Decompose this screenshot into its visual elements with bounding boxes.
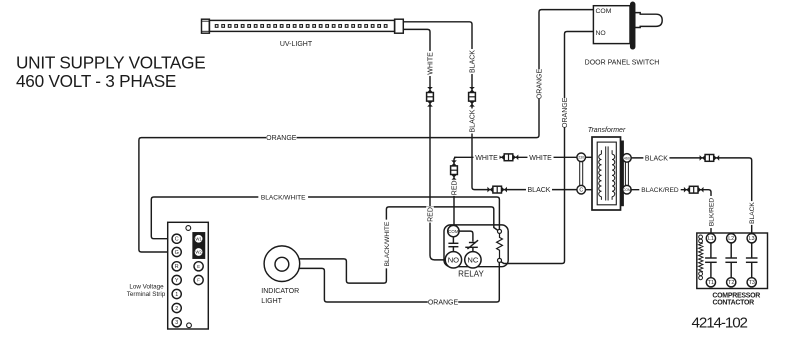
relay NC contact (459, 231, 478, 252)
svg-text:W2: W2 (195, 250, 202, 255)
contactor terminal T2 (727, 278, 736, 287)
svg-text:UNIT SUPPLY VOLTAGE: UNIT SUPPLY VOLTAGE (16, 53, 205, 73)
uv-light lamp (202, 19, 404, 33)
svg-text:BLACK/WHITE: BLACK/WHITE (261, 194, 306, 201)
wire label BLACK left (526, 185, 552, 194)
svg-text:NC: NC (467, 256, 478, 265)
svg-text:ORANGE: ORANGE (266, 135, 297, 142)
wire black: uv-light to transformer C terminal (403, 22, 577, 190)
contactor contact 2 (725, 243, 737, 278)
svg-text:T3: T3 (749, 280, 755, 286)
connector on black wire right (700, 155, 720, 162)
connector on black wire to transformer (487, 186, 507, 193)
wire white: junction to transformer 230 terminal (454, 156, 577, 158)
svg-text:COM: COM (623, 188, 631, 192)
wire black/white: indicator light to relay coil top (299, 207, 498, 283)
svg-text:BLACK: BLACK (749, 202, 756, 224)
transformer terminal leads (580, 157, 629, 189)
connector on black wire (469, 87, 476, 107)
svg-text:WHITE: WHITE (428, 52, 435, 75)
svg-text:RED: RED (452, 180, 459, 195)
terminal C (172, 234, 181, 243)
low voltage terminal strip body (168, 222, 209, 329)
svg-text:BLACK/WHITE: BLACK/WHITE (384, 221, 391, 266)
terminal 3 (172, 318, 181, 327)
svg-text:ORANGE: ORANGE (537, 69, 544, 100)
contactor terminal T3 (747, 278, 756, 287)
contactor terminal L2 (727, 234, 736, 243)
wire label BLACK/RED horiz (639, 185, 680, 194)
svg-text:DOOR PANEL SWITCH: DOOR PANEL SWITCH (585, 59, 660, 66)
svg-text:BLACK: BLACK (470, 109, 477, 132)
wire label WHITE (426, 51, 434, 76)
terminal F (194, 275, 203, 284)
svg-text:RELAY: RELAY (458, 269, 484, 278)
svg-text:COM: COM (596, 8, 612, 15)
transformer terminal 460 (623, 154, 632, 163)
svg-text:UV-LIGHT: UV-LIGHT (280, 41, 313, 48)
svg-text:ORANGE: ORANGE (562, 97, 569, 128)
contactor terminal T1 (706, 278, 715, 287)
svg-text:NO: NO (448, 256, 459, 265)
svg-text:ORANGE: ORANGE (428, 299, 459, 306)
terminal 2 (172, 303, 181, 312)
connector on white wire (427, 87, 434, 107)
wire label BLACK lower (468, 108, 476, 133)
svg-text:C: C (175, 237, 179, 243)
svg-text:BLACK: BLACK (645, 155, 668, 162)
svg-text:460: 460 (624, 156, 630, 160)
wire label RED upper (450, 180, 458, 196)
svg-text:2: 2 (175, 306, 178, 312)
contactor coil spring (699, 235, 703, 280)
connector on white wire to transformer (499, 154, 519, 161)
svg-text:E: E (197, 264, 200, 269)
transformer terminal COM (623, 185, 632, 194)
svg-text:T2: T2 (728, 280, 734, 286)
contactor contact 1 (705, 243, 717, 278)
transformer body (592, 137, 624, 210)
connector on black/red wire (684, 186, 704, 193)
svg-text:4214-102: 4214-102 (692, 314, 748, 331)
relay NC terminal (465, 252, 481, 268)
wire orange: door switch COM to terminal G (139, 10, 594, 252)
transformer terminal C (577, 185, 586, 194)
wire red: junction down to relay COM (454, 157, 457, 225)
terminal E (194, 262, 203, 271)
wire label BLACK (468, 49, 476, 74)
relay COM terminal (448, 225, 459, 236)
connector on red wire (451, 160, 458, 180)
contactor contact 3 (746, 243, 758, 278)
wire label WHITE 2 (527, 153, 553, 162)
svg-text:3: 3 (175, 320, 178, 326)
wire label WHITE 1 (473, 153, 499, 162)
door panel switch (593, 2, 662, 49)
svg-text:COMPRESSOR: COMPRESSOR (712, 292, 760, 299)
wire label ORANGE horizontal (266, 133, 297, 142)
wire black: transformer 460 terminal to contactor L3 (631, 158, 752, 234)
relay coil (497, 229, 503, 262)
svg-text:G: G (175, 250, 179, 256)
relay NO contact (448, 237, 458, 252)
svg-text:BLACK: BLACK (470, 50, 477, 73)
wire black/red: transformer COM terminal to contactor L1 (631, 190, 711, 234)
wire label BLACK right horiz (643, 153, 669, 162)
terminal R (172, 262, 181, 271)
svg-text:L2: L2 (728, 236, 734, 242)
svg-text:Y: Y (175, 278, 179, 284)
contactor terminal L3 (747, 234, 756, 243)
svg-text:T1: T1 (708, 280, 714, 286)
svg-text:BLK/RED: BLK/RED (708, 198, 715, 226)
contactor terminal L1 (706, 234, 715, 243)
terminal W2 (194, 247, 203, 256)
terminal Y (172, 275, 181, 284)
svg-text:Transformer: Transformer (588, 127, 626, 134)
terminal W1 (194, 234, 203, 243)
svg-text:F: F (197, 278, 200, 283)
svg-text:W1: W1 (195, 236, 202, 241)
svg-text:L1: L1 (708, 236, 714, 242)
svg-text:1: 1 (175, 292, 178, 298)
terminal G (172, 247, 181, 256)
svg-text:RED: RED (428, 207, 435, 222)
relay body (444, 225, 508, 267)
wire label ORANGE com (535, 69, 543, 100)
svg-text:BLACK: BLACK (528, 187, 551, 194)
svg-text:WHITE: WHITE (529, 155, 552, 162)
svg-text:Low Voltage: Low Voltage (129, 283, 164, 290)
indicator light (264, 246, 300, 282)
wire black/white: terminal C to relay coil top (151, 197, 499, 239)
compressor contactor body (697, 233, 768, 289)
terminal 1 (172, 289, 181, 298)
svg-text:C: C (579, 188, 583, 194)
wire white/red: uv-light to relay NO (403, 29, 445, 260)
svg-text:NO: NO (596, 30, 606, 37)
wire label ORANGE bottom (428, 297, 459, 306)
svg-text:COM: COM (448, 229, 459, 234)
wire label ORANGE no (561, 97, 569, 128)
svg-text:LIGHT: LIGHT (261, 298, 282, 305)
wire label BLACK right (748, 201, 756, 225)
wire label BLK/RED (707, 196, 715, 228)
relay NO terminal (445, 252, 461, 268)
svg-text:L3: L3 (749, 236, 755, 242)
wire orange: indicator light to relay coil bottom (299, 263, 499, 302)
wire label BLACK/WHITE vertical (383, 220, 391, 269)
svg-text:CONTACTOR: CONTACTOR (713, 300, 755, 307)
svg-text:BLACK/RED: BLACK/RED (641, 187, 679, 194)
svg-text:Terminal Strip: Terminal Strip (127, 291, 166, 298)
wire label RED lower (426, 206, 434, 222)
svg-text:R: R (175, 264, 179, 270)
svg-text:INDICATOR: INDICATOR (261, 288, 299, 295)
wire orange: door switch NO to relay coil bottom (501, 32, 594, 264)
wire label BLACK/WHITE horizontal (258, 192, 308, 201)
svg-text:WHITE: WHITE (475, 155, 498, 162)
transformer terminal 230 (577, 153, 586, 162)
svg-text:460 VOLT - 3 PHASE: 460 VOLT - 3 PHASE (16, 71, 176, 91)
svg-text:230: 230 (578, 156, 584, 160)
